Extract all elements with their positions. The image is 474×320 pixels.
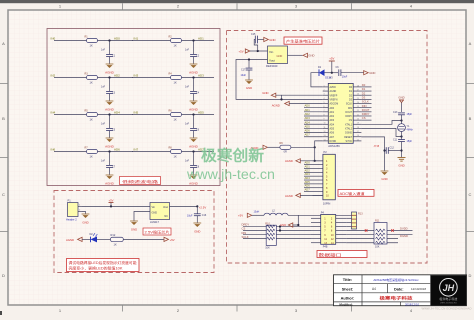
svg-text:DGND: DGND — [400, 234, 408, 238]
connector P2 10PIN — [313, 150, 336, 205]
ground GND — [193, 223, 201, 233]
ground AGND — [189, 64, 199, 75]
svg-text:JHHX.GONGZ.HU: JHHX.GONGZ.HU — [440, 302, 457, 304]
svg-text:10uF: 10uF — [187, 215, 193, 218]
node IN4 label — [51, 110, 56, 114]
voltage reference U2 REF3040 — [266, 46, 288, 68]
svg-text:AD2: AD2 — [114, 73, 120, 77]
svg-text:GND: GND — [398, 95, 404, 99]
svg-text:1nF: 1nF — [185, 160, 190, 163]
wire AGND to R9 — [268, 146, 280, 148]
node AD7 — [192, 147, 204, 152]
node IN2 label — [51, 73, 56, 77]
svg-text:3: 3 — [324, 94, 325, 96]
power port AGND left of LED — [66, 237, 82, 242]
svg-text:4: 4 — [324, 98, 325, 100]
capacitor C15 branch — [251, 33, 264, 51]
svg-text:1: 1 — [324, 85, 325, 87]
node AD1 — [192, 36, 204, 41]
power port GND — [364, 71, 376, 76]
capacitor C2 — [185, 41, 200, 64]
wire net D1 — [361, 87, 371, 91]
label ADC input channels — [338, 190, 374, 197]
svg-text:CS: CS — [242, 227, 246, 231]
svg-text:2018/12/10: 2018/12/10 — [405, 302, 419, 306]
svg-text:24: 24 — [357, 102, 359, 104]
svg-text:D: D — [2, 273, 5, 278]
svg-text:6: 6 — [324, 106, 325, 108]
resistor R7 — [85, 146, 98, 158]
filter block border — [47, 29, 220, 186]
wire net D0 — [361, 83, 371, 87]
svg-text:26: 26 — [357, 94, 359, 96]
svg-text:AD0: AD0 — [305, 161, 311, 165]
node AD5 — [192, 110, 204, 115]
svg-text:GND: GND — [246, 86, 252, 90]
svg-text:REF3040: REF3040 — [266, 64, 278, 68]
svg-text:GND: GND — [369, 71, 375, 75]
svg-text:A4: A4 — [372, 287, 376, 291]
ground GND — [245, 80, 253, 90]
power port GND — [303, 53, 315, 57]
svg-text:+5V: +5V — [170, 238, 175, 242]
svg-text:SYNC: SYNC — [346, 141, 353, 143]
power port GND on DIN row — [280, 215, 299, 227]
svg-text:12: 12 — [324, 131, 326, 133]
svg-text:+5V: +5V — [329, 57, 334, 61]
diode D1 SS14 — [318, 66, 332, 80]
wire LED to R12 — [97, 238, 110, 240]
svg-text:Modified:: Modified: — [339, 302, 352, 306]
wire +5V to REF Vin — [250, 50, 268, 52]
svg-text:14: 14 — [324, 139, 326, 141]
resistor R1 — [85, 35, 98, 47]
svg-text:25: 25 — [357, 98, 359, 100]
svg-text:R13: R13 — [358, 212, 363, 215]
wire IN7 row — [132, 151, 214, 153]
wire header right — [346, 242, 398, 244]
svg-text:+5V: +5V — [238, 214, 243, 218]
wire R12 to +5V — [123, 238, 164, 240]
capacitor C8 — [185, 152, 200, 175]
wire IN3 row — [132, 77, 214, 79]
wire net DRDY to header — [242, 223, 312, 227]
svg-text:AD3: AD3 — [330, 119, 335, 122]
footer url — [422, 307, 472, 311]
crystal Y1 — [398, 121, 414, 137]
svg-text:1K: 1K — [90, 155, 93, 159]
svg-text:10: 10 — [324, 123, 326, 125]
title block — [334, 275, 467, 307]
svg-text:AD1: AD1 — [305, 108, 311, 112]
svg-text:4MHz: 4MHz — [407, 129, 414, 132]
svg-text:XTAL1: XTAL1 — [345, 123, 353, 126]
svg-text:15: 15 — [357, 139, 359, 141]
ground GND — [82, 214, 90, 224]
power port +5V — [108, 198, 113, 206]
ground AGND — [105, 64, 115, 75]
svg-text:1nF: 1nF — [101, 49, 106, 52]
svg-text:P4B: P4B — [323, 246, 328, 249]
dashed border power block — [54, 191, 214, 273]
svg-text:www.jh-tec.cn: www.jh-tec.cn — [186, 167, 275, 182]
svg-text:Sheet:: Sheet: — [342, 287, 354, 291]
wire P1 pin1 to regulator — [82, 205, 150, 207]
note LED annotation — [67, 259, 140, 272]
power port AGND pin10 — [285, 193, 323, 198]
svg-text:DOUT: DOUT — [362, 108, 370, 112]
wire IN6 row — [54, 151, 133, 153]
resistor R3 — [85, 72, 98, 84]
ground GND — [381, 171, 389, 181]
svg-text:10uF: 10uF — [342, 75, 348, 78]
svg-text:GND: GND — [280, 223, 286, 227]
node IN1 label — [134, 36, 139, 40]
ground AGND — [189, 138, 199, 149]
svg-text:19: 19 — [357, 123, 359, 125]
svg-text:D3: D3 — [362, 95, 366, 99]
svg-text:AVDD: AVDD — [330, 86, 337, 89]
wire IN2 row — [54, 77, 133, 79]
label 2.5V regulator — [143, 228, 171, 235]
wire net AD2 to chip — [304, 112, 323, 116]
svg-text:调试电路焊接LED后发现指示灯亮度可能: 调试电路焊接LED后发现指示灯亮度可能 — [69, 260, 138, 265]
svg-text:2.5V稳压芯片: 2.5V稳压芯片 — [145, 229, 170, 234]
svg-text:Vout: Vout — [269, 59, 275, 63]
svg-text:AD7: AD7 — [330, 136, 335, 139]
op-amp U3 ADS1256 body — [323, 76, 362, 149]
svg-text:GND: GND — [131, 227, 137, 231]
svg-text:1nF: 1nF — [185, 49, 190, 52]
svg-text:1nF: 1nF — [101, 86, 106, 89]
label reference chip — [284, 37, 322, 44]
svg-text:ADS1256: ADS1256 — [328, 144, 340, 148]
svg-text:Vout: Vout — [163, 206, 168, 209]
svg-text:AGND: AGND — [105, 182, 115, 186]
svg-text:NC: NC — [164, 215, 168, 218]
svg-text:AD2: AD2 — [305, 112, 311, 116]
svg-text:AD0: AD0 — [305, 104, 311, 108]
capacitor C16 — [187, 206, 207, 222]
wire XTAL2 — [361, 128, 402, 137]
wire header right — [346, 230, 412, 232]
power port GND on VREF line — [262, 91, 322, 99]
regulator U4 LM1117 — [150, 203, 170, 224]
corner artifact — [0, 311, 2, 315]
capacitor C5 — [101, 115, 116, 138]
svg-text:ADC输入通道: ADC输入通道 — [340, 191, 366, 196]
capacitor C6 — [336, 66, 364, 78]
svg-text:AD7: AD7 — [305, 133, 311, 137]
wire net AD7 to chip — [304, 133, 323, 137]
label data interface — [317, 251, 367, 258]
svg-text:IN4: IN4 — [51, 110, 56, 114]
power port +5V feeding REF — [239, 49, 250, 54]
resistor network R11 — [374, 220, 387, 249]
svg-text:B: B — [469, 116, 472, 121]
resistor R12 — [110, 233, 123, 246]
wire net DOUT — [361, 108, 371, 112]
svg-text:DRDY: DRDY — [242, 223, 250, 227]
svg-text:AD4: AD4 — [114, 110, 120, 114]
svg-text:1K: 1K — [174, 155, 177, 159]
svg-text:C11: C11 — [393, 138, 398, 141]
svg-text:15pF: 15pF — [407, 113, 413, 116]
svg-text:1K: 1K — [90, 81, 93, 85]
svg-text:IN0: IN0 — [51, 36, 56, 40]
svg-text:10uF: 10uF — [241, 74, 247, 77]
svg-text:12/10/2018: 12/10/2018 — [411, 287, 426, 291]
wire chip DGND down to connector — [314, 141, 323, 162]
svg-text:D1: D1 — [362, 87, 366, 91]
svg-text:DGND: DGND — [345, 133, 352, 135]
wire regulator GND pin — [134, 212, 150, 221]
resistor R2 — [169, 35, 182, 47]
svg-text:P4: P4 — [321, 210, 325, 214]
svg-text:JH: JH — [443, 283, 455, 293]
wire net AD0 to chip — [304, 104, 323, 108]
svg-text:Vin: Vin — [152, 206, 156, 209]
svg-text:22: 22 — [357, 110, 359, 112]
wire header right — [346, 238, 398, 240]
svg-text:1K: 1K — [90, 44, 93, 48]
wire net AD4 to chip — [304, 120, 323, 124]
capacitor C1 — [101, 41, 116, 64]
wire net D3 — [361, 95, 371, 99]
resistor R5 — [85, 109, 98, 121]
svg-text:SCLK: SCLK — [362, 100, 369, 104]
wire net AD7 to connector — [304, 188, 313, 192]
wire net CS to header — [242, 227, 312, 231]
svg-text:RESET: RESET — [344, 137, 352, 139]
capacitor C12 series — [385, 147, 402, 154]
LED D2 — [90, 233, 98, 242]
svg-text:DIN: DIN — [348, 108, 352, 110]
svg-text:DRDY: DRDY — [345, 116, 352, 118]
connector P1 — [66, 198, 82, 221]
svg-text:AD1: AD1 — [198, 36, 204, 40]
svg-text:GND: GND — [398, 164, 404, 168]
svg-text:AD7: AD7 — [305, 188, 311, 192]
svg-text:AD0: AD0 — [114, 36, 120, 40]
wire net AD3 to connector — [304, 172, 313, 176]
svg-text:13: 13 — [324, 135, 326, 137]
svg-text:9: 9 — [324, 119, 325, 121]
svg-text:R11: R11 — [375, 220, 380, 223]
svg-text:低频滤波电路: 低频滤波电路 — [122, 179, 159, 184]
svg-text:0R: 0R — [284, 151, 287, 154]
capacitor C17 — [241, 60, 253, 80]
wire net AD1 to connector — [304, 164, 313, 168]
wire IN4 row — [54, 114, 133, 116]
svg-text:10K: 10K — [265, 246, 270, 249]
svg-text:+2.5V: +2.5V — [199, 206, 207, 210]
node IN7 label — [134, 147, 139, 151]
svg-text:P2: P2 — [324, 150, 328, 154]
wire P1 pin2 to ground — [82, 212, 86, 214]
wire AGND to LED — [82, 238, 90, 240]
svg-text:数据接口: 数据接口 — [319, 251, 342, 257]
svg-text:IN3: IN3 — [134, 73, 139, 77]
capacitor C3 — [101, 78, 116, 101]
svg-text:R10: R10 — [265, 222, 270, 225]
capacitor C4 — [185, 78, 200, 101]
resistor R8 — [169, 146, 182, 158]
wire net AD5 to connector — [304, 180, 313, 184]
wire REF Vout net — [236, 58, 323, 100]
dashed border main block — [227, 31, 428, 264]
wire net D2 — [361, 91, 371, 95]
svg-text:CS: CS — [362, 116, 366, 120]
svg-text:C15: C15 — [251, 33, 256, 36]
node AD2 — [108, 73, 120, 78]
svg-text:SCLK: SCLK — [346, 104, 353, 106]
svg-text:27: 27 — [357, 89, 359, 91]
power port GND — [264, 37, 276, 42]
svg-text:GND: GND — [152, 212, 158, 215]
svg-text:1nF: 1nF — [101, 123, 106, 126]
resistor network R10 — [265, 222, 276, 249]
svg-text:+5V: +5V — [108, 198, 113, 202]
svg-text:AGND: AGND — [330, 90, 337, 93]
svg-text:DRDY: DRDY — [362, 112, 370, 116]
svg-text:AD6: AD6 — [330, 132, 335, 135]
node IN0 label — [51, 36, 56, 40]
svg-text:1K: 1K — [174, 44, 177, 48]
svg-text:AD6: AD6 — [305, 184, 311, 188]
svg-text:2: 2 — [324, 89, 325, 91]
wire diode to cap — [325, 72, 339, 74]
svg-text:DIN: DIN — [362, 104, 367, 108]
wire regulator output — [170, 205, 199, 207]
node DVDD label — [400, 227, 408, 231]
svg-text:Title:: Title: — [343, 277, 352, 282]
svg-text:15pF: 15pF — [407, 140, 413, 143]
wire net AD6 to connector — [304, 184, 313, 188]
svg-text:AD4: AD4 — [305, 120, 311, 124]
wire net AD0 to connector — [304, 161, 313, 165]
power port +2.5V — [199, 206, 207, 210]
power port +5V — [329, 57, 335, 73]
svg-text:A: A — [2, 41, 5, 46]
svg-text:U3: U3 — [329, 76, 333, 80]
resistor R6 — [169, 109, 182, 121]
svg-text:XTAL2: XTAL2 — [345, 128, 353, 131]
svg-text:极寒电子科技: 极寒电子科技 — [439, 296, 457, 301]
svg-text:Vin: Vin — [269, 50, 274, 54]
resistor R9 — [280, 142, 291, 153]
svg-text:AD3: AD3 — [305, 116, 311, 120]
svg-text:1K: 1K — [114, 243, 117, 247]
capacitor C7 — [101, 152, 116, 175]
svg-text:1K: 1K — [174, 118, 177, 122]
svg-text:R12: R12 — [111, 233, 116, 237]
svg-text:C: C — [469, 192, 472, 197]
wire IN1 row — [132, 40, 214, 42]
wire R9 to DGND rail — [291, 146, 316, 148]
svg-text:SCLK: SCLK — [242, 235, 249, 239]
svg-text:23: 23 — [357, 106, 359, 108]
svg-text:1nF: 1nF — [185, 123, 190, 126]
svg-text:A: A — [469, 41, 472, 46]
capacitor C11 — [393, 137, 412, 158]
svg-text:AD6: AD6 — [305, 129, 311, 133]
power port AGND to ADCOM — [272, 101, 323, 107]
label low-pass filter — [120, 177, 161, 185]
resistor R4 — [169, 72, 182, 84]
wire IN0 row — [54, 40, 133, 42]
node AD0 — [108, 36, 120, 41]
svg-text:AD3: AD3 — [305, 172, 311, 176]
header P4 2x7 — [311, 210, 352, 248]
wire net SCLK to header — [242, 235, 312, 239]
resistor network R13 — [352, 212, 364, 229]
svg-text:亮度变小，更换LED的阻值10K: 亮度变小，更换LED的阻值10K — [69, 265, 124, 270]
svg-text:AD5: AD5 — [305, 180, 311, 184]
svg-text:C13: C13 — [393, 111, 398, 114]
wire net DIN — [361, 104, 371, 108]
ground GND below crystal — [398, 158, 406, 168]
node AD6 — [108, 147, 120, 152]
power port +5V with inductor — [238, 213, 264, 217]
svg-text:DOUT: DOUT — [345, 112, 352, 114]
svg-text:5: 5 — [324, 102, 325, 104]
svg-text:16: 16 — [357, 135, 359, 137]
svg-text:28: 28 — [357, 85, 359, 87]
svg-text:AD5: AD5 — [330, 128, 335, 131]
svg-text:C17: C17 — [241, 68, 246, 71]
svg-text:D0: D0 — [362, 83, 366, 87]
svg-text:Date:: Date: — [394, 287, 404, 291]
svg-text:GND: GND — [269, 38, 275, 42]
node DGND label — [400, 234, 408, 238]
wire net AD2 to connector — [304, 168, 313, 172]
logo JH — [431, 275, 466, 305]
ground GND — [130, 221, 138, 231]
svg-text:AD1: AD1 — [330, 111, 335, 114]
node IN6 label — [51, 147, 56, 151]
ground AGND — [105, 101, 115, 112]
svg-text:AGND: AGND — [285, 159, 293, 163]
svg-text:VREFN: VREFN — [330, 99, 338, 101]
power port AGND pin1 — [285, 159, 323, 164]
svg-text:AGND: AGND — [285, 194, 293, 198]
svg-text:VREFP: VREFP — [330, 95, 338, 97]
svg-text:IN5: IN5 — [134, 110, 139, 114]
svg-text:+5V: +5V — [239, 50, 244, 54]
svg-text:Header 2: Header 2 — [66, 217, 77, 221]
svg-text:C16: C16 — [202, 214, 207, 217]
ground AGND — [105, 175, 115, 186]
svg-text:AD0: AD0 — [330, 107, 335, 110]
svg-text:LM1117: LM1117 — [150, 220, 160, 224]
svg-text:AD2: AD2 — [330, 115, 335, 118]
svg-text:IN1: IN1 — [134, 36, 139, 40]
svg-text:AD2: AD2 — [305, 168, 311, 172]
ground AGND — [189, 101, 199, 112]
svg-text:GND: GND — [82, 220, 88, 224]
wire L2 to pull-up network — [288, 214, 357, 216]
node AD4 — [108, 110, 120, 115]
wire REF GND pin — [288, 54, 303, 56]
svg-text:GND: GND — [277, 54, 283, 58]
svg-text:D2: D2 — [362, 91, 366, 95]
svg-text:AGND: AGND — [66, 238, 74, 242]
svg-text:IN7: IN7 — [134, 147, 139, 151]
capacitor C6 — [185, 115, 200, 138]
svg-text:C12: C12 — [390, 147, 395, 150]
svg-text:ADS1256电压采集模块v3.SchDoc: ADS1256电压采集模块v3.SchDoc — [373, 277, 419, 282]
